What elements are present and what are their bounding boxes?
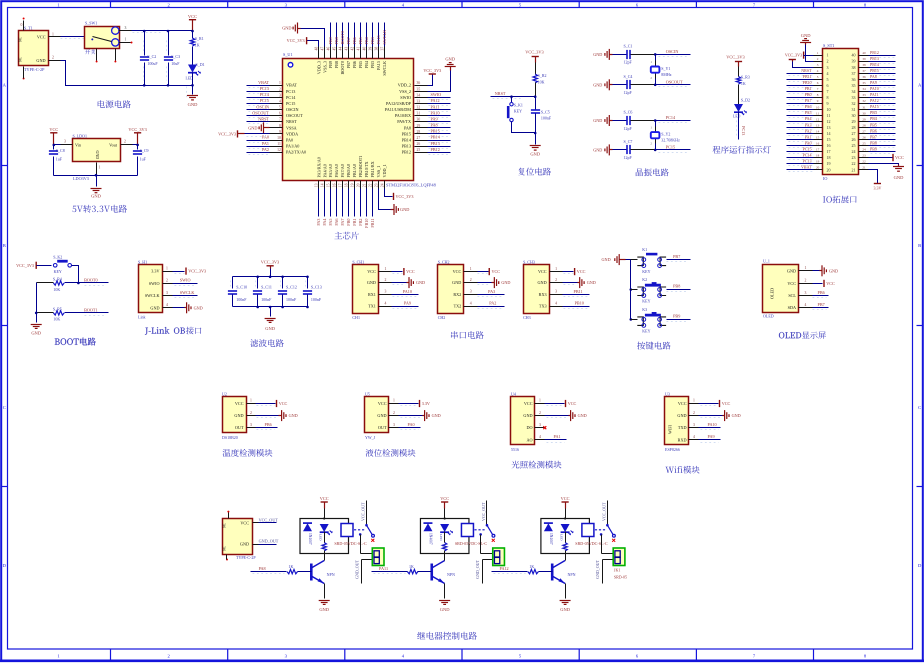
svg-text:48: 48 (315, 47, 319, 51)
svg-text:24: 24 (852, 149, 856, 154)
svg-text:S_SW1: S_SW1 (85, 20, 97, 25)
svg-text:39: 39 (862, 57, 866, 61)
svg-text:31: 31 (862, 105, 866, 109)
svg-text:PA3/RX/A0: PA3/RX/A0 (316, 157, 321, 177)
svg-text:21: 21 (852, 167, 856, 172)
svg-text:1K: 1K (289, 564, 294, 569)
svg-text:2: 2 (279, 87, 281, 91)
svg-text:GND: GND (367, 280, 376, 285)
svg-text:4: 4 (539, 435, 541, 439)
svg-text:PB9: PB9 (328, 61, 333, 68)
svg-text:LED: LED (560, 534, 564, 541)
svg-text:1: 1 (250, 399, 252, 403)
svg-text:35: 35 (417, 87, 421, 91)
svg-text:CH3: CH3 (523, 315, 531, 320)
svg-text:TYPE-C-2P: TYPE-C-2P (24, 67, 45, 72)
svg-text:10: 10 (827, 107, 831, 112)
svg-text:SWIO: SWIO (180, 278, 191, 283)
svg-text:PA3: PA3 (805, 122, 812, 127)
svg-text:PA8: PA8 (870, 74, 877, 79)
svg-text:TX3: TX3 (539, 304, 547, 309)
svg-text:PB1: PB1 (805, 86, 812, 91)
svg-text:PB7: PB7 (673, 254, 680, 259)
svg-text:34: 34 (862, 87, 866, 91)
svg-text:VCC: VCC (440, 496, 449, 501)
svg-text:K3: K3 (642, 307, 647, 312)
svg-text:VCC: VCC (320, 496, 329, 501)
svg-text:PA2: PA2 (489, 301, 496, 306)
svg-text:PB6: PB6 (870, 128, 877, 133)
svg-text:PA7: PA7 (805, 98, 812, 103)
svg-text:26: 26 (417, 142, 421, 146)
svg-text:3.3V: 3.3V (151, 269, 159, 274)
svg-text:GND: GND (282, 26, 291, 31)
svg-text:1: 1 (166, 266, 168, 270)
svg-text:PA0: PA0 (805, 140, 812, 145)
svg-text:U_1: U_1 (763, 259, 770, 264)
svg-text:GND: GND (732, 413, 741, 418)
svg-text:PA9: PA9 (870, 80, 877, 85)
svg-text:39: 39 (368, 47, 372, 51)
svg-text:NC: NC (19, 56, 23, 62)
svg-text:PB1/A0: PB1/A0 (352, 164, 357, 178)
svg-text:27: 27 (862, 129, 866, 133)
svg-text:S_ST1: S_ST1 (823, 43, 834, 48)
svg-text:OSCIN: OSCIN (286, 107, 299, 112)
svg-text:10K: 10K (53, 287, 60, 292)
svg-text:3: 3 (693, 423, 695, 427)
svg-text:PA15: PA15 (870, 104, 879, 109)
svg-text:33: 33 (862, 93, 866, 97)
svg-text:13: 13 (816, 123, 820, 127)
svg-text:GND_OUT: GND_OUT (259, 538, 279, 543)
svg-text:S_C12: S_C12 (286, 284, 297, 289)
svg-text:VCC: VCC (378, 401, 387, 406)
svg-text:1K: 1K (409, 564, 414, 569)
svg-text:TX1: TX1 (368, 304, 376, 309)
svg-text:S_CH2: S_CH2 (438, 260, 450, 265)
svg-text:GND: GND (578, 413, 587, 418)
svg-text:40: 40 (862, 51, 866, 55)
svg-text:VCC: VCC (367, 269, 376, 274)
svg-text:36: 36 (852, 77, 856, 82)
svg-text:22: 22 (852, 161, 856, 166)
svg-text:3: 3 (166, 291, 168, 295)
svg-text:PB9: PB9 (328, 37, 333, 44)
svg-text:PA5/A0: PA5/A0 (328, 164, 333, 177)
svg-text:Link: Link (138, 315, 146, 320)
svg-text:18: 18 (827, 155, 831, 160)
svg-text:3: 3 (384, 290, 386, 294)
svg-text:GND: GND (894, 175, 904, 180)
svg-text:WIFI: WIFI (668, 424, 673, 434)
svg-text:KEY: KEY (54, 269, 62, 274)
svg-text:3: 3 (64, 140, 66, 144)
svg-text:4: 4 (555, 301, 557, 305)
svg-text:VSSA: VSSA (286, 125, 297, 130)
svg-text:VCC: VCC (406, 269, 415, 274)
svg-text:PA1: PA1 (554, 434, 561, 439)
svg-text:PA15: PA15 (376, 35, 381, 44)
svg-text:PB4: PB4 (364, 36, 369, 44)
svg-text:37: 37 (852, 71, 856, 76)
svg-text:VDD_2: VDD_2 (398, 83, 411, 88)
svg-text:38: 38 (862, 63, 866, 67)
svg-text:1: 1 (555, 267, 557, 271)
svg-text:PB5: PB5 (358, 37, 363, 44)
svg-text:19: 19 (816, 160, 820, 164)
svg-text:PA12: PA12 (500, 566, 509, 571)
svg-text:PC15: PC15 (803, 146, 812, 151)
svg-text:PA2/TX/A0: PA2/TX/A0 (286, 150, 306, 155)
svg-text:VCC: VCC (279, 401, 288, 406)
svg-text:GND: GND (188, 102, 198, 107)
svg-text:PB2/BOOT1: PB2/BOOT1 (358, 156, 363, 178)
svg-text:VCC_3V3: VCC_3V3 (423, 68, 441, 73)
svg-text:PB6: PB6 (352, 37, 357, 44)
svg-text:PB7: PB7 (346, 61, 351, 68)
svg-text:40: 40 (852, 53, 856, 58)
svg-text:2: 2 (250, 411, 252, 415)
svg-text:PA6: PA6 (334, 219, 339, 226)
svg-text:SWCLK: SWCLK (382, 30, 387, 45)
svg-text:C: C (918, 405, 921, 410)
svg-text:7: 7 (827, 89, 829, 94)
svg-text:1K: 1K (195, 42, 200, 47)
svg-text:3.3V: 3.3V (422, 401, 430, 406)
svg-text:PB12: PB12 (870, 50, 879, 55)
svg-text:S_C3: S_C3 (171, 54, 180, 59)
svg-text:U2: U2 (222, 392, 227, 397)
svg-text:PA10/RX: PA10/RX (395, 113, 411, 118)
svg-text:17: 17 (827, 149, 831, 154)
svg-text:RX2: RX2 (453, 292, 461, 297)
svg-text:PB11: PB11 (803, 74, 812, 79)
svg-text:PA6/A0: PA6/A0 (334, 164, 339, 177)
svg-text:38: 38 (374, 47, 378, 51)
svg-text:PB1: PB1 (352, 219, 357, 226)
svg-text:PA3: PA3 (488, 289, 495, 294)
svg-text:9: 9 (279, 130, 281, 134)
svg-text:14: 14 (816, 129, 820, 133)
svg-text:4: 4 (166, 303, 168, 307)
svg-text:44: 44 (339, 47, 343, 51)
svg-text:JK1: JK1 (614, 568, 620, 573)
svg-text:VCC_3V3: VCC_3V3 (188, 269, 206, 274)
svg-text:PA10: PA10 (431, 110, 440, 115)
svg-text:100nF: 100nF (311, 297, 322, 302)
svg-text:VCC: VCC (787, 281, 796, 286)
svg-text:37: 37 (862, 69, 866, 73)
svg-text:S_R5: S_R5 (53, 306, 62, 311)
svg-text:PB5: PB5 (358, 61, 363, 68)
svg-text:VSS_3: VSS_3 (322, 61, 327, 73)
svg-text:AO: AO (526, 437, 532, 442)
svg-text:NRST: NRST (495, 91, 506, 96)
svg-text:37: 37 (380, 47, 384, 51)
svg-text:GND: GND (248, 125, 257, 130)
svg-text:NPN: NPN (327, 572, 335, 577)
svg-text:23: 23 (852, 155, 856, 160)
svg-text:VCC_3V3: VCC_3V3 (396, 194, 414, 199)
svg-text:SWIO: SWIO (400, 95, 411, 100)
svg-text:VCC: VCC (240, 521, 249, 526)
svg-text:SRD-05VDC-SL-C: SRD-05VDC-SL-C (575, 541, 608, 546)
svg-text:2: 2 (805, 279, 807, 283)
svg-text:PA5: PA5 (328, 219, 333, 226)
svg-text:PB5: PB5 (870, 122, 877, 127)
svg-text:PC13: PC13 (260, 86, 269, 91)
svg-text:GND: GND (150, 305, 159, 310)
svg-text:9: 9 (827, 101, 829, 106)
svg-text:SCL: SCL (788, 293, 796, 298)
svg-text:LED: LED (733, 115, 741, 119)
svg-text:LED: LED (319, 534, 323, 541)
svg-text:GND: GND (445, 57, 455, 62)
svg-text:PA12/USB/DP: PA12/USB/DP (386, 101, 412, 106)
svg-text:10: 10 (816, 105, 820, 109)
svg-text:TXD: TXD (678, 425, 687, 430)
svg-text:1K: 1K (741, 81, 746, 86)
svg-text:PA8: PA8 (431, 123, 438, 128)
svg-text:PA4: PA4 (322, 218, 327, 226)
svg-text:1: 1 (805, 266, 807, 270)
svg-text:GND: GND (602, 257, 611, 262)
svg-text:PC14: PC14 (666, 115, 676, 120)
svg-text:GND: GND (593, 147, 602, 152)
svg-text:PB3: PB3 (870, 110, 877, 115)
svg-text:S_Y1: S_Y1 (661, 66, 670, 71)
svg-text:YW_J: YW_J (365, 435, 376, 440)
svg-text:RXD: RXD (678, 437, 687, 442)
svg-text:12pF: 12pF (624, 155, 633, 160)
svg-text:0: 0 (21, 23, 23, 27)
svg-text:PB11/RX: PB11/RX (370, 161, 375, 177)
svg-text:PB14: PB14 (431, 135, 441, 140)
svg-text:LED: LED (439, 534, 443, 541)
svg-text:PC15: PC15 (286, 101, 295, 106)
svg-text:PB7: PB7 (818, 302, 825, 307)
svg-text:PC15: PC15 (260, 98, 269, 103)
svg-text:28: 28 (862, 123, 866, 127)
svg-text:23: 23 (374, 183, 378, 187)
svg-text:100nF: 100nF (261, 297, 272, 302)
svg-text:GND: GND (829, 268, 838, 273)
svg-text:13: 13 (827, 125, 831, 130)
svg-text:13: 13 (315, 183, 319, 187)
svg-text:PB13: PB13 (402, 144, 411, 149)
svg-text:PB11: PB11 (574, 289, 583, 294)
svg-text:GND: GND (194, 305, 203, 310)
svg-text:16: 16 (827, 143, 831, 148)
svg-text:PA6: PA6 (805, 104, 812, 109)
svg-text:B: B (3, 243, 6, 248)
svg-text:3: 3 (250, 423, 252, 427)
svg-text:PB13: PB13 (870, 56, 879, 61)
svg-text:OSCOUT: OSCOUT (252, 110, 269, 115)
svg-text:25: 25 (852, 143, 856, 148)
svg-text:34: 34 (417, 93, 421, 97)
svg-text:24: 24 (380, 183, 384, 187)
svg-text:OSCIN: OSCIN (256, 104, 269, 109)
svg-text:28: 28 (852, 125, 856, 130)
svg-text:3: 3 (827, 65, 829, 70)
svg-text:STM32F103C8T6_LQFP48: STM32F103C8T6_LQFP48 (386, 182, 437, 187)
svg-text:1K: 1K (562, 544, 566, 549)
svg-text:VCC: VCC (826, 281, 835, 286)
svg-text:PB9: PB9 (870, 146, 877, 151)
svg-text:3: 3 (125, 26, 127, 30)
svg-text:C: C (3, 405, 6, 410)
svg-text:PA12: PA12 (431, 98, 440, 103)
svg-text:Vin: Vin (75, 143, 82, 148)
svg-text:3: 3 (539, 423, 541, 427)
svg-text:SWCLK: SWCLK (145, 293, 160, 298)
svg-text:S_R4: S_R4 (53, 277, 62, 282)
svg-text:4: 4 (693, 435, 695, 439)
svg-text:SRD-05VDC-SL-C: SRD-05VDC-SL-C (455, 541, 488, 546)
svg-text:IO: IO (823, 176, 827, 181)
svg-text:17: 17 (339, 183, 343, 187)
svg-text:1N4007: 1N4007 (308, 533, 312, 545)
svg-text:1uF: 1uF (140, 157, 147, 162)
svg-text:VCC_3V3: VCC_3V3 (16, 263, 34, 268)
svg-text:SWCLK: SWCLK (382, 61, 387, 76)
svg-text:PC14: PC14 (286, 95, 296, 100)
svg-text:17: 17 (816, 147, 820, 151)
svg-text:PA10: PA10 (403, 289, 412, 294)
svg-text:25: 25 (417, 148, 421, 152)
svg-text:35: 35 (852, 83, 856, 88)
svg-text:20: 20 (827, 167, 831, 172)
svg-text:NC: NC (19, 36, 23, 42)
svg-text:PB13: PB13 (431, 141, 440, 146)
svg-text:PA4/A0: PA4/A0 (322, 164, 327, 177)
svg-text:VDD_1: VDD_1 (382, 164, 387, 177)
svg-text:10uF: 10uF (171, 61, 180, 66)
svg-text:GND: GND (530, 151, 540, 156)
svg-text:S_C8: S_C8 (56, 148, 65, 153)
svg-text:1uF: 1uF (56, 157, 63, 162)
svg-text:S_C5: S_C5 (541, 109, 550, 114)
svg-text:4: 4 (384, 301, 386, 305)
svg-text:34: 34 (852, 89, 856, 94)
svg-text:39: 39 (852, 59, 856, 64)
svg-text:ESP8266: ESP8266 (665, 447, 680, 452)
svg-text:PB12: PB12 (431, 147, 440, 152)
svg-text:8: 8 (827, 95, 829, 100)
svg-text:1N4007: 1N4007 (428, 533, 432, 545)
svg-text:36: 36 (417, 81, 421, 85)
svg-text:2: 2 (827, 59, 829, 64)
svg-text:PA1: PA1 (262, 141, 269, 146)
svg-text:1: 1 (393, 399, 395, 403)
svg-text:3: 3 (279, 93, 281, 97)
svg-text:GND: GND (501, 280, 510, 285)
svg-text:LDO3V3: LDO3V3 (73, 176, 89, 181)
svg-text:GND: GND (416, 280, 425, 285)
svg-text:PA0: PA0 (262, 135, 269, 140)
svg-text:NC: NC (223, 545, 227, 551)
svg-text:VCC: VCC (568, 401, 577, 406)
svg-text:PC13: PC13 (286, 89, 295, 94)
svg-text:26: 26 (862, 135, 866, 139)
svg-text:CH1: CH1 (352, 315, 360, 320)
svg-text:25: 25 (862, 141, 866, 145)
svg-text:35: 35 (862, 81, 866, 85)
svg-text:GND: GND (801, 33, 811, 38)
svg-text:18: 18 (816, 154, 820, 158)
svg-text:11: 11 (277, 142, 281, 146)
svg-text:42: 42 (350, 47, 354, 51)
svg-text:PB3: PB3 (370, 61, 375, 68)
svg-text:PB0: PB0 (346, 219, 351, 226)
svg-text:PB14: PB14 (870, 62, 879, 67)
svg-text:GND_OUT: GND_OUT (595, 559, 600, 578)
svg-text:VCC_OUT: VCC_OUT (481, 502, 486, 521)
svg-text:VCC: VCC (235, 401, 244, 406)
svg-text:3: 3 (555, 290, 557, 294)
svg-text:U3: U3 (665, 392, 670, 397)
svg-text:VCC: VCC (538, 269, 547, 274)
svg-text:VCC_OUT: VCC_OUT (361, 502, 366, 521)
svg-text:GND: GND (319, 607, 329, 612)
svg-text:16: 16 (333, 183, 337, 187)
svg-text:VCC: VCC (577, 269, 586, 274)
svg-text:PC15: PC15 (666, 144, 675, 149)
svg-text:PB8: PB8 (870, 140, 877, 145)
svg-text:PA0: PA0 (408, 422, 415, 427)
svg-text:VCC_3V3: VCC_3V3 (218, 131, 236, 136)
svg-text:PA4: PA4 (805, 116, 812, 121)
svg-text:GND: GND (91, 194, 101, 199)
svg-text:2: 2 (555, 278, 557, 282)
svg-text:PB6: PB6 (818, 290, 825, 295)
svg-text:GND_OUT: GND_OUT (475, 559, 480, 578)
svg-text:1: 1 (125, 37, 127, 41)
svg-text:NRST: NRST (258, 116, 269, 121)
svg-text:TYPE-C-2P: TYPE-C-2P (236, 555, 256, 560)
svg-text:30: 30 (852, 113, 856, 118)
svg-text:S_CH1: S_CH1 (352, 260, 364, 265)
svg-text:24: 24 (862, 147, 866, 151)
svg-text:GND: GND (593, 118, 602, 123)
svg-text:1: 1 (384, 267, 386, 271)
svg-text:PA1: PA1 (805, 134, 812, 139)
svg-text:K2: K2 (642, 277, 647, 282)
svg-text:PA9: PA9 (708, 434, 715, 439)
svg-text:GND: GND (787, 268, 796, 273)
svg-text:SWIO: SWIO (431, 92, 442, 97)
svg-text:S_R3: S_R3 (741, 75, 750, 80)
svg-text:S_T1: S_T1 (24, 26, 33, 31)
svg-text:PA9: PA9 (404, 301, 411, 306)
svg-text:VDDA: VDDA (286, 131, 298, 136)
svg-text:PC13: PC13 (803, 158, 812, 163)
svg-text:11: 11 (816, 111, 820, 115)
svg-text:RX3: RX3 (539, 292, 547, 297)
svg-text:TX2: TX2 (454, 304, 462, 309)
svg-text:GND_OUT: GND_OUT (354, 559, 359, 578)
svg-text:S_C7: S_C7 (624, 139, 633, 144)
svg-text:22: 22 (368, 183, 372, 187)
svg-text:VCC: VCC (524, 401, 533, 406)
svg-text:47: 47 (321, 47, 325, 51)
svg-text:VCC: VCC (491, 269, 500, 274)
svg-text:GND: GND (523, 413, 532, 418)
svg-text:KEY: KEY (642, 299, 650, 304)
svg-text:S_C10: S_C10 (236, 284, 247, 289)
